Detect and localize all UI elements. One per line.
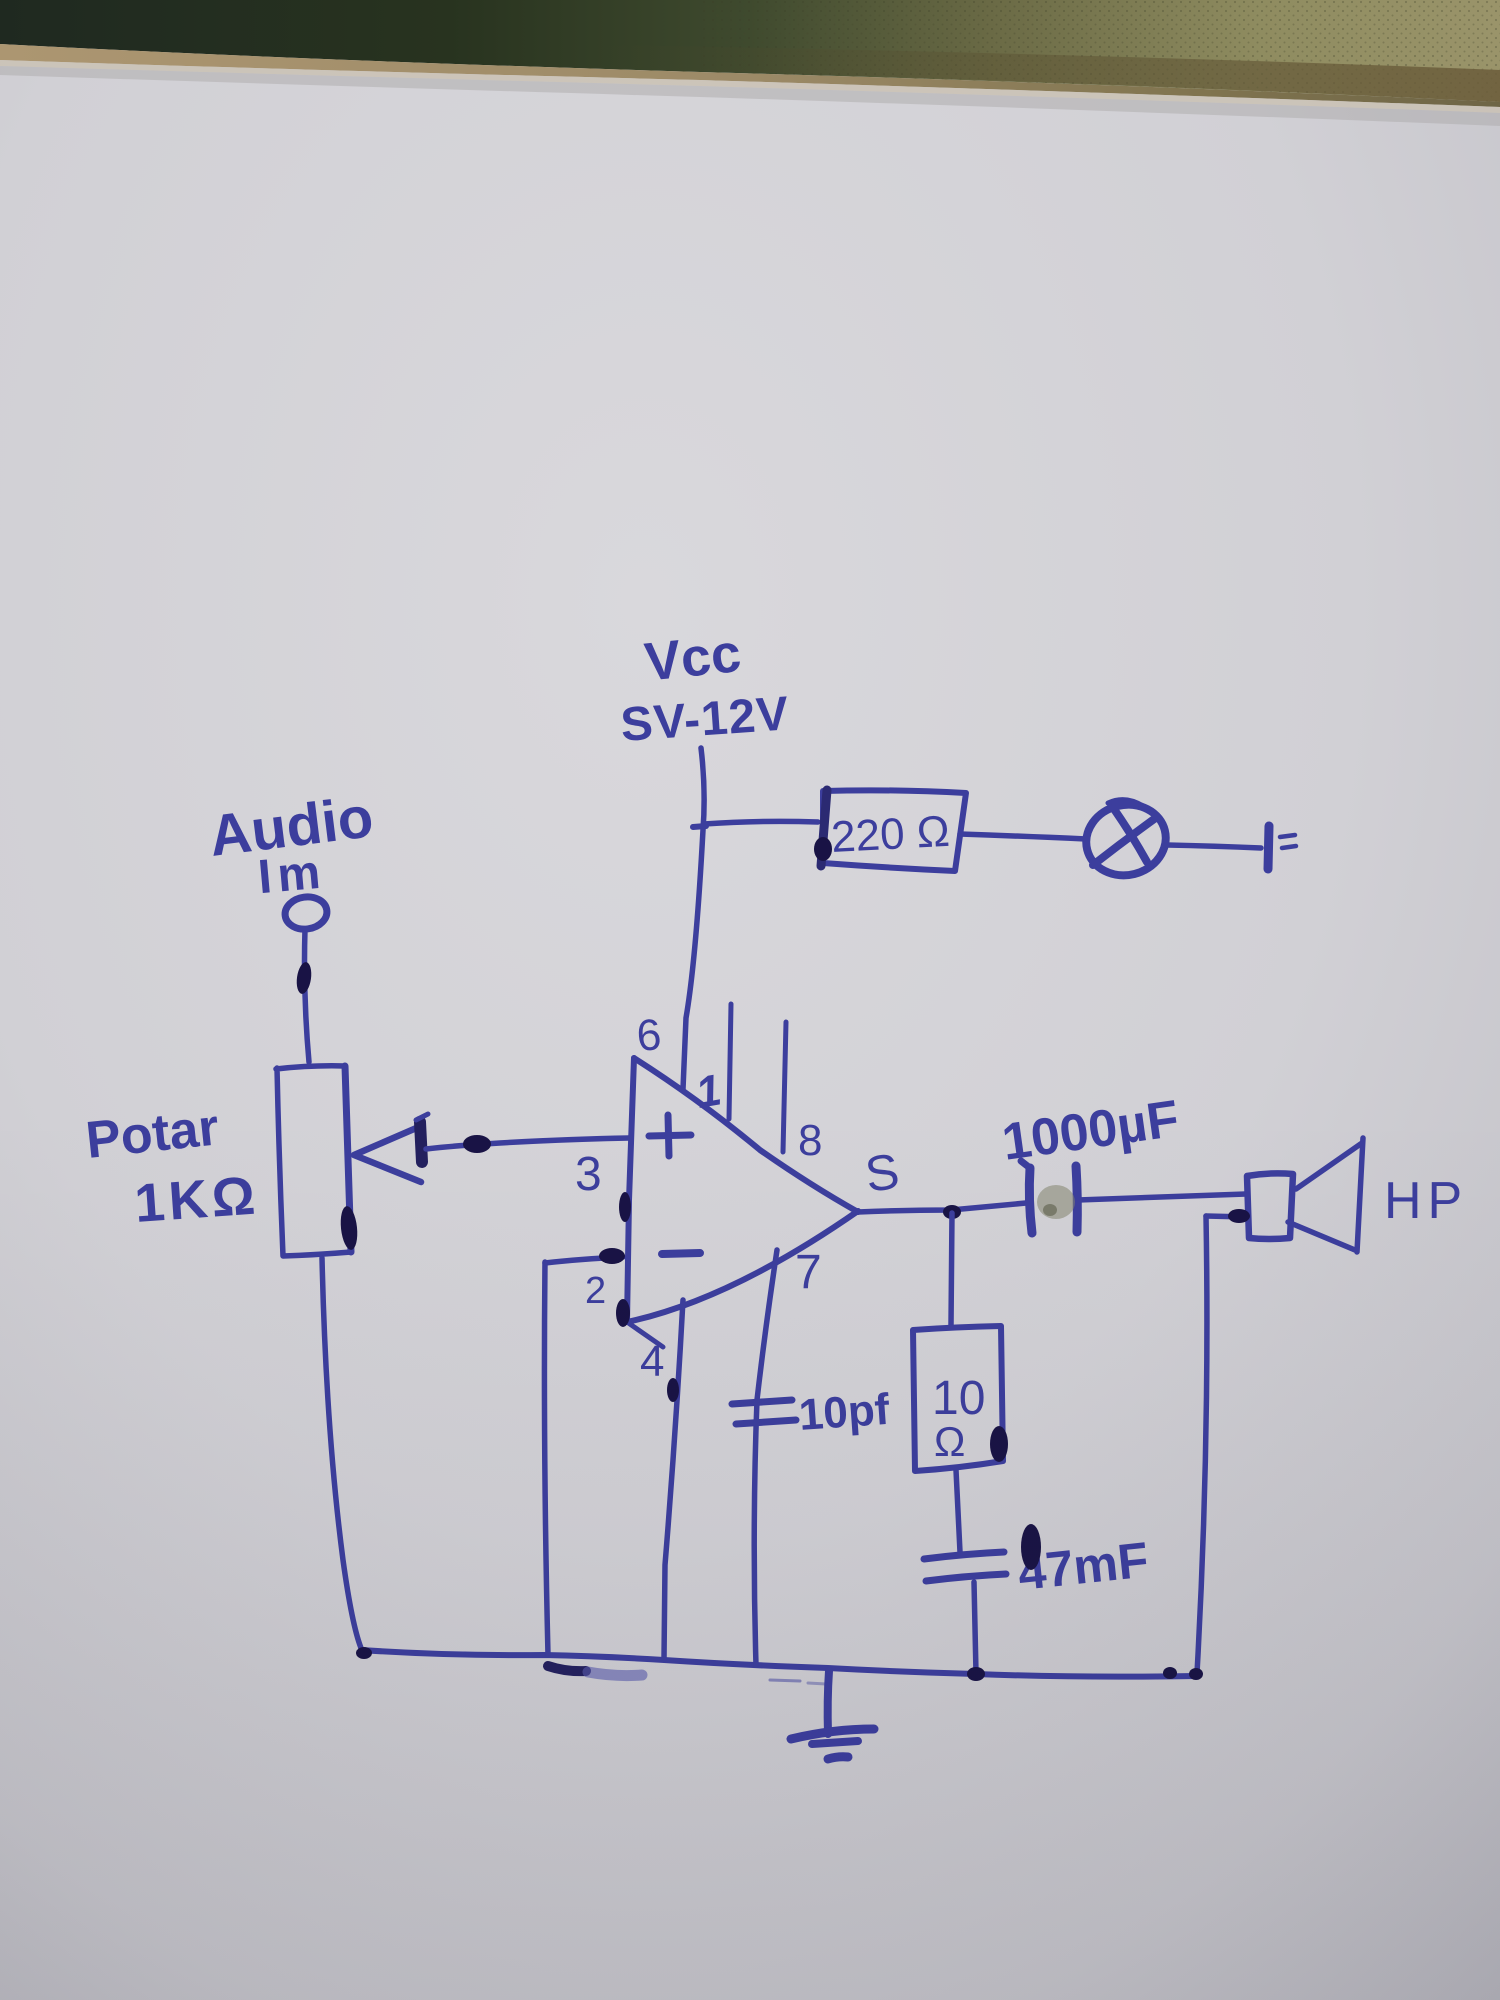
op-amp minus sign xyxy=(662,1253,700,1254)
svg-text:Vcc: Vcc xyxy=(642,623,744,693)
blob at bus right corner xyxy=(1189,1668,1203,1680)
capacitor C 10pF plates xyxy=(732,1400,792,1404)
bold blob on 4 of 47mF xyxy=(1021,1524,1041,1570)
lamp L1 xyxy=(1079,796,1174,883)
junction blob output node xyxy=(943,1205,961,1219)
blob on 10 ohm box right edge xyxy=(990,1426,1008,1462)
speaker return wire xyxy=(1206,1216,1247,1217)
pin 8 line xyxy=(783,1022,786,1152)
potentiometer P1 1k body xyxy=(276,1066,351,1256)
wire lamp to end terminal xyxy=(1167,845,1261,848)
wire Vcc junction tick xyxy=(693,826,706,827)
wire pot bottom to ground bus xyxy=(322,1258,361,1648)
blob on pin4 line xyxy=(667,1378,679,1402)
pot ink blob bottom right xyxy=(339,1205,360,1250)
wire op-amp pin2 branch xyxy=(545,1257,623,1263)
op-amp U1 triangle xyxy=(627,1058,634,1322)
wire resistor to lamp xyxy=(960,834,1086,839)
pin 4 line xyxy=(664,1300,683,1659)
terminal end bar xyxy=(1268,826,1269,869)
resistor R 10 ohm box xyxy=(913,1326,1003,1471)
ground bus wire xyxy=(361,1650,1196,1677)
junction blob on wiper wire xyxy=(463,1135,491,1153)
wire output node down to resistor 10 xyxy=(951,1213,952,1326)
blob on pin2 wire xyxy=(599,1248,625,1264)
wire cap to speaker xyxy=(1078,1194,1246,1200)
blobs on op-amp left edge xyxy=(619,1192,631,1222)
bottom darkening overlay xyxy=(0,1100,1500,2000)
blob at 220 box corner xyxy=(814,837,832,861)
svg-text:6: 6 xyxy=(635,1010,664,1061)
pot wiper arrow xyxy=(354,1126,421,1182)
wire Vcc to resistor xyxy=(704,821,818,824)
blob at bus left corner xyxy=(356,1647,372,1659)
wire audio terminal to pot xyxy=(305,929,310,1062)
speaker horn xyxy=(1296,1143,1362,1189)
svg-text:220 Ω: 220 Ω xyxy=(830,807,951,862)
pin 1 line xyxy=(729,1004,731,1119)
paper stack tan edge xyxy=(0,44,1500,107)
pin 7 line xyxy=(754,1250,777,1665)
smudge between cap plates xyxy=(1037,1185,1075,1219)
capacitor C 47mF plates xyxy=(924,1552,1004,1559)
audio input terminal circle xyxy=(283,894,329,932)
wire Vcc vertical lead xyxy=(683,748,704,1089)
wire 10ohm to 47mF cap xyxy=(956,1470,960,1552)
ground symbol xyxy=(828,1671,829,1734)
fabric lower-edge shadow xyxy=(600,45,1500,102)
output wire from op-amp xyxy=(858,1203,1026,1212)
soft shadow under paper top edge xyxy=(0,66,1500,126)
overdraw stroke on bus right of pin2 xyxy=(548,1666,586,1671)
green fabric strip at top xyxy=(0,0,1500,102)
speaker HP box xyxy=(1247,1173,1293,1239)
ink blob on audio wire xyxy=(295,961,313,995)
resistor R 220 ohm box xyxy=(823,790,966,871)
capacitor C 1000uF plates xyxy=(1029,1168,1032,1233)
wire wiper to op-amp pin3 xyxy=(426,1138,629,1149)
small blob on bus near right corner xyxy=(1163,1667,1177,1679)
wire 47mF to ground bus xyxy=(974,1582,976,1673)
blob at 47mF bus junction xyxy=(967,1667,985,1681)
fabric weave texture dots xyxy=(700,0,1500,102)
op-amp plus sign xyxy=(668,1115,669,1156)
